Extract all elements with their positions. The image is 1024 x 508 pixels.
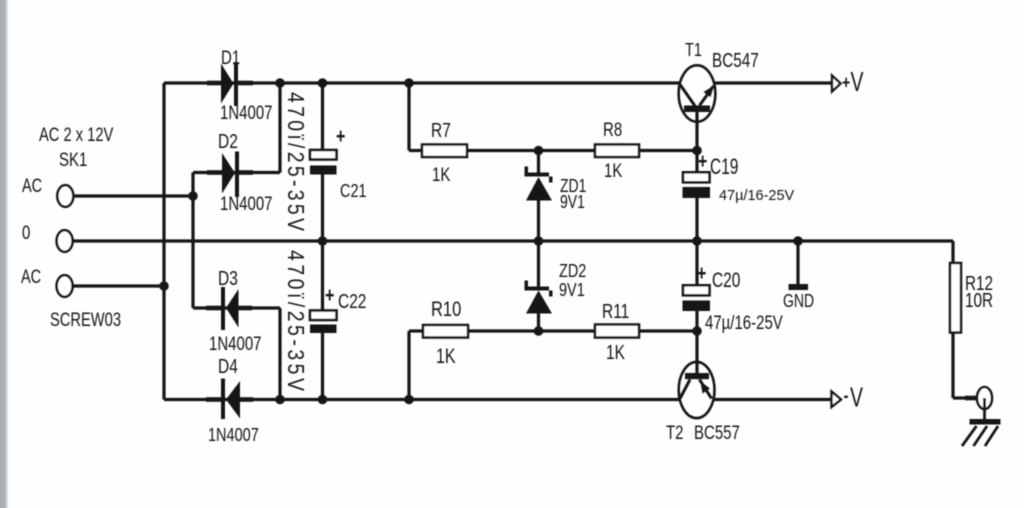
svg-text:C20: C20 — [712, 267, 740, 291]
wire T2 emitter to -V — [714, 398, 832, 401]
svg-text:SK1: SK1 — [59, 148, 87, 170]
junction dot node R7-ZD1 — [534, 146, 544, 156]
terminal SCREW03 AC bottom — [57, 275, 73, 297]
wire AC1 terminal lead — [73, 194, 193, 197]
wire GND stub — [796, 241, 799, 284]
svg-text:R11: R11 — [602, 300, 629, 322]
svg-text:1N4007: 1N4007 — [220, 192, 273, 214]
svg-text:+: + — [842, 73, 850, 93]
wire R12 top lead — [951, 241, 954, 263]
resistor R12 — [950, 263, 961, 333]
wire AC2 vertical riser — [162, 83, 165, 400]
svg-text:BC557: BC557 — [694, 421, 740, 443]
svg-text:GND: GND — [783, 291, 814, 311]
svg-text:AC 2 x 12V: AC 2 x 12V — [39, 124, 114, 145]
svg-text:10R: 10R — [965, 289, 993, 311]
resistor R10 — [423, 325, 468, 338]
svg-text:1N4007: 1N4007 — [220, 101, 273, 123]
wire T2 base lead — [695, 331, 698, 373]
svg-text:BC547: BC547 — [712, 49, 759, 71]
earth symbol — [962, 419, 1001, 446]
junction dot 0 rail / C19-C20 — [692, 236, 702, 246]
svg-text:9V1: 9V1 — [559, 279, 585, 300]
transistor T2 (BC557 PNP) — [679, 362, 715, 418]
wire R8 to T1 base node — [639, 149, 697, 152]
svg-text:D4: D4 — [218, 355, 238, 378]
svg-text:V: V — [850, 382, 863, 413]
wire R7 to R8 — [467, 149, 595, 152]
svg-text:+: + — [698, 150, 707, 174]
svg-text:D2: D2 — [218, 130, 238, 153]
junction dot bottom rail / R10 branch — [404, 395, 414, 405]
junction dot top rail / D2 riser — [275, 78, 285, 88]
wire D4 cathode stub — [206, 397, 221, 402]
output arrow -V — [832, 392, 842, 408]
resistor R11 — [595, 325, 639, 338]
wire D3 row — [193, 306, 280, 309]
wire R7 branch vertical — [407, 83, 410, 151]
wire 0 rail — [73, 239, 954, 242]
resistor R8 — [595, 145, 639, 158]
svg-text:AC: AC — [22, 175, 42, 196]
capacitor C22 — [310, 311, 337, 334]
capacitor C20 — [683, 285, 711, 311]
wire D3 cathode stub — [206, 306, 221, 311]
svg-text:C22: C22 — [338, 290, 366, 312]
svg-text:T2: T2 — [666, 421, 684, 443]
transistor T1 (BC547 NPN) — [679, 65, 716, 121]
junction dot bottom rail / C22 — [318, 395, 328, 405]
svg-text:1N4007: 1N4007 — [209, 332, 262, 354]
terminal SK1 AC top — [57, 185, 73, 207]
earth terminal circle — [977, 387, 992, 420]
svg-text:C21: C21 — [340, 180, 367, 201]
wire D3 anode dropper — [278, 308, 281, 400]
wire D3 anode stub — [239, 306, 253, 311]
wire R12 bottom lead — [951, 333, 954, 399]
junction dot node R11-C20-T2 base — [692, 326, 702, 336]
svg-text:+: + — [325, 284, 334, 308]
svg-text:1N4007: 1N4007 — [208, 424, 259, 445]
output arrow +V — [832, 76, 841, 92]
svg-text:47µ/16-25V: 47µ/16-25V — [719, 188, 794, 204]
wire C20 bottom lead — [695, 311, 698, 331]
wire AC1 vertical — [191, 173, 194, 309]
junction dot top rail / R7 branch — [404, 78, 414, 88]
svg-text:1K: 1K — [604, 159, 623, 181]
wire C21 top lead — [321, 83, 324, 150]
svg-text:T1: T1 — [685, 39, 702, 60]
svg-text:0: 0 — [22, 221, 31, 244]
diode D2 — [222, 152, 239, 198]
terminal SK1 0 — [57, 230, 73, 252]
wire ZD2 bottom lead — [537, 314, 540, 332]
zener diode ZD1 — [525, 167, 553, 201]
svg-text:470ï/25-35V: 470ï/25-35V — [283, 92, 309, 232]
wire D1 anode stub — [207, 81, 221, 86]
svg-text:D1: D1 — [221, 46, 240, 69]
wire top rail — [164, 81, 680, 84]
diode D1 — [221, 62, 238, 106]
wire D2 cathode riser — [278, 83, 281, 173]
wire C20 top lead — [695, 241, 698, 284]
wire D2 anode stub — [207, 170, 222, 175]
wire ZD2 top lead — [537, 241, 540, 287]
junction dot AC1 / vertical — [188, 191, 198, 201]
svg-text:+: + — [697, 262, 706, 286]
svg-text:R8: R8 — [603, 118, 622, 140]
svg-text:C19: C19 — [710, 155, 738, 179]
wire R7 branch horizontal — [409, 149, 422, 152]
junction dot bottom rail / D3 dropper — [275, 395, 285, 405]
junction dot 0 rail / C21-C22 — [318, 236, 328, 246]
ground symbol GND — [789, 284, 809, 290]
wire R10 to R11 — [468, 329, 595, 332]
wire T1 emitter to +V — [714, 81, 832, 84]
svg-text:R10: R10 — [431, 298, 461, 322]
svg-text:1K: 1K — [436, 344, 456, 368]
wire D2 cathode stub — [239, 170, 253, 175]
wire R11 to T2 base node — [639, 329, 697, 332]
junction dot 0 rail / ZD1-ZD2 — [534, 236, 544, 246]
wire C22 bottom lead — [321, 333, 324, 400]
svg-text:1K: 1K — [606, 341, 625, 363]
svg-text:SCREW03: SCREW03 — [50, 309, 121, 330]
wire ZD1 top lead — [537, 151, 540, 173]
svg-text:1K: 1K — [432, 163, 451, 185]
diode D4 — [221, 379, 240, 420]
svg-text:9V1: 9V1 — [560, 192, 585, 212]
junction dot AC2 / riser — [159, 281, 169, 291]
junction dot node R8-C19-T1 base — [692, 146, 702, 156]
wire C21 bottom lead — [321, 175, 324, 242]
left gray edge bar — [0, 0, 9, 508]
svg-text:V: V — [851, 67, 864, 98]
wire D2 row — [193, 171, 280, 174]
wire R10 branch horizontal — [409, 329, 423, 332]
wire C19 bottom lead — [695, 198, 698, 241]
wire D1 cathode stub — [238, 81, 253, 86]
wire to earth terminal — [953, 396, 977, 399]
zener diode ZD2 — [525, 281, 553, 314]
wire bottom rail — [164, 398, 680, 401]
svg-text:D3: D3 — [218, 267, 238, 290]
svg-text:R7: R7 — [431, 119, 451, 141]
junction dot top rail / C21 — [318, 78, 328, 88]
svg-text:470ï/25-35V: 470ï/25-35V — [283, 250, 309, 392]
wire earth lead stub — [965, 396, 977, 401]
wire D4 anode stub — [240, 397, 253, 402]
wire AC2 terminal lead — [73, 284, 165, 287]
svg-text:47µ/16-25V: 47µ/16-25V — [705, 311, 783, 333]
diode D3 — [221, 287, 239, 330]
wire C22 top lead — [321, 241, 324, 311]
capacitor C19 — [683, 172, 711, 198]
wire C19 top lead — [695, 151, 698, 172]
svg-text:+: + — [336, 125, 345, 149]
junction dot 0 rail / GND — [793, 236, 803, 246]
capacitor C21 — [310, 150, 337, 175]
wire ZD1 bottom lead — [537, 201, 540, 242]
svg-text:-: - — [844, 384, 849, 406]
wire T1 base lead — [695, 112, 698, 151]
junction dot node R10-ZD2 — [534, 326, 544, 336]
wire R10 branch vertical — [407, 331, 410, 400]
svg-text:AC: AC — [21, 266, 41, 287]
resistor R7 — [422, 145, 467, 158]
